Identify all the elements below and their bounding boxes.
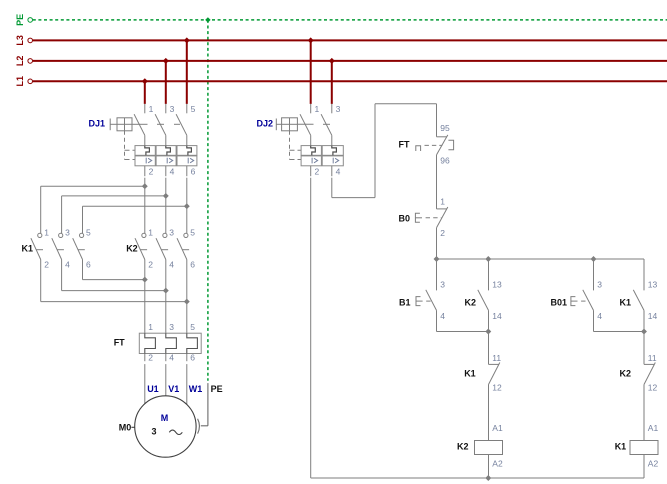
svg-text:W1: W1 <box>189 384 203 394</box>
svg-text:13: 13 <box>648 280 658 290</box>
svg-text:3: 3 <box>440 280 445 290</box>
svg-text:4: 4 <box>440 311 445 321</box>
svg-text:4: 4 <box>65 260 70 270</box>
svg-text:5: 5 <box>190 322 195 332</box>
svg-text:2: 2 <box>149 166 154 176</box>
svg-text:2: 2 <box>44 260 49 270</box>
svg-text:12: 12 <box>648 383 658 393</box>
svg-text:U1: U1 <box>147 384 159 394</box>
svg-text:4: 4 <box>597 311 602 321</box>
svg-text:PE: PE <box>211 384 223 394</box>
svg-text:K2: K2 <box>620 368 632 378</box>
svg-text:2: 2 <box>148 260 153 270</box>
svg-text:K2: K2 <box>465 297 477 307</box>
svg-text:FT: FT <box>114 337 125 347</box>
svg-text:6: 6 <box>86 260 91 270</box>
svg-text:K1: K1 <box>615 441 627 451</box>
svg-text:5: 5 <box>86 228 91 238</box>
svg-text:K2: K2 <box>457 441 469 451</box>
svg-text:K1: K1 <box>620 297 632 307</box>
svg-text:6: 6 <box>191 166 196 176</box>
svg-text:1: 1 <box>149 104 154 114</box>
svg-text:96: 96 <box>440 155 450 165</box>
svg-text:M: M <box>161 413 169 423</box>
svg-text:3: 3 <box>169 228 174 238</box>
svg-text:V1: V1 <box>168 384 179 394</box>
svg-text:DJ1: DJ1 <box>89 118 106 128</box>
svg-text:DJ2: DJ2 <box>257 118 274 128</box>
svg-text:2: 2 <box>315 167 320 177</box>
svg-text:3: 3 <box>336 104 341 114</box>
svg-text:4: 4 <box>336 167 341 177</box>
svg-text:1: 1 <box>44 228 49 238</box>
svg-text:A1: A1 <box>492 423 503 433</box>
svg-text:B1: B1 <box>399 297 411 307</box>
svg-text:3: 3 <box>170 104 175 114</box>
svg-text:L2: L2 <box>15 56 25 67</box>
svg-text:FT: FT <box>399 140 410 150</box>
svg-text:3: 3 <box>65 228 70 238</box>
svg-text:5: 5 <box>190 228 195 238</box>
svg-text:1: 1 <box>148 322 153 332</box>
svg-text:A2: A2 <box>648 459 659 469</box>
svg-text:11: 11 <box>492 353 501 363</box>
svg-text:K1: K1 <box>22 244 34 254</box>
svg-text:PE: PE <box>15 14 25 26</box>
svg-text:M0: M0 <box>119 423 132 433</box>
svg-text:6: 6 <box>190 260 195 270</box>
svg-text:4: 4 <box>169 260 174 270</box>
svg-text:4: 4 <box>169 353 174 363</box>
svg-text:3: 3 <box>152 426 157 436</box>
svg-text:5: 5 <box>191 104 196 114</box>
svg-text:B0: B0 <box>399 213 411 223</box>
svg-text:13: 13 <box>492 280 502 290</box>
svg-text:L3: L3 <box>15 35 25 46</box>
svg-text:3: 3 <box>169 322 174 332</box>
svg-text:1: 1 <box>315 104 320 114</box>
svg-text:L1: L1 <box>15 76 25 87</box>
svg-text:11: 11 <box>648 353 657 363</box>
svg-text:14: 14 <box>492 311 502 321</box>
svg-text:K1: K1 <box>464 368 476 378</box>
svg-text:A1: A1 <box>648 423 659 433</box>
svg-text:14: 14 <box>648 311 658 321</box>
svg-text:3: 3 <box>597 280 602 290</box>
svg-text:B01: B01 <box>551 297 568 307</box>
svg-text:2: 2 <box>440 228 445 238</box>
svg-text:1: 1 <box>148 228 153 238</box>
svg-text:12: 12 <box>492 383 502 393</box>
svg-text:K2: K2 <box>126 244 138 254</box>
svg-text:4: 4 <box>170 166 175 176</box>
svg-text:95: 95 <box>440 123 450 133</box>
svg-text:A2: A2 <box>492 459 503 469</box>
svg-text:2: 2 <box>148 353 153 363</box>
svg-text:6: 6 <box>190 353 195 363</box>
svg-text:1: 1 <box>440 197 445 207</box>
